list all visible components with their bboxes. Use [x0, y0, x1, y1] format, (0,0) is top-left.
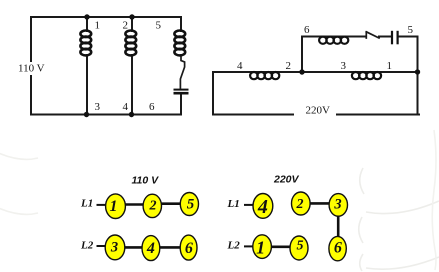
wire: bottom bus [31, 114, 181, 116]
svg-text:220V: 220V [306, 105, 331, 117]
svg-text:1: 1 [95, 20, 101, 32]
wire: capacitor to corner [398, 36, 418, 38]
wire link 3-4 [123, 246, 144, 249]
svg-text:4: 4 [257, 196, 268, 218]
svg-text:L2: L2 [80, 239, 94, 251]
svg-text:4: 4 [237, 60, 243, 72]
wire: branch 3 upper [180, 17, 182, 31]
svg-text:5: 5 [297, 239, 304, 254]
svg-text:2: 2 [149, 198, 157, 213]
terminal 2 [292, 192, 311, 215]
svg-text:110 V: 110 V [18, 63, 45, 75]
svg-text:5: 5 [187, 196, 195, 212]
inductor winding 2-4 [125, 31, 136, 56]
wire L2 lead [97, 245, 107, 247]
junction dot top branch 2 [129, 14, 134, 19]
terminal 6 [329, 236, 346, 260]
svg-text:6: 6 [149, 101, 155, 113]
wire: branch 1 vertical [86, 17, 88, 115]
terminal 1 [106, 194, 126, 219]
terminal 3 [105, 235, 125, 260]
svg-text:4: 4 [123, 101, 129, 113]
wire L1 lead [244, 204, 254, 206]
svg-text:3: 3 [95, 101, 101, 113]
svg-text:3: 3 [110, 239, 118, 255]
terminal 4 [253, 194, 273, 219]
terminal 5 [290, 236, 308, 260]
wire L2 lead [244, 245, 255, 247]
wire link 3-6 vertical [337, 215, 340, 239]
svg-text:220V: 220V [273, 174, 300, 186]
svg-text:2: 2 [286, 60, 292, 72]
junction dot top branch 1 [84, 14, 89, 19]
svg-text:2: 2 [296, 197, 304, 212]
wire: right side vertical [417, 37, 419, 115]
wire link 2-5 [159, 202, 182, 205]
wire: left side down [212, 72, 214, 115]
terminal 6 [180, 235, 197, 260]
terminal 5 [180, 193, 198, 216]
svg-text:6: 6 [334, 240, 342, 257]
inductor winding 6-5 (start winding) [319, 37, 348, 44]
terminal 3 [329, 194, 347, 217]
wire link 1-2 [123, 203, 145, 206]
svg-text:L1: L1 [227, 198, 240, 210]
page scan artifact arcs (faint) [0, 130, 439, 271]
wire: top bus [31, 16, 181, 18]
wire: left side lower segment [30, 76, 32, 115]
svg-text:1: 1 [256, 238, 265, 258]
wire: bottom right segment [337, 114, 419, 116]
svg-text:2: 2 [123, 20, 129, 32]
svg-text:1: 1 [387, 60, 393, 72]
svg-text:5: 5 [156, 20, 162, 32]
terminal 2 [143, 194, 161, 217]
svg-text:3: 3 [341, 60, 347, 72]
svg-text:L1: L1 [80, 198, 93, 210]
wire: branch 2 vertical [131, 17, 133, 115]
switch S1 (centrifugal) top branch [366, 32, 379, 38]
inductor winding 5-6 (start winding) [174, 31, 185, 56]
svg-text:6: 6 [185, 240, 193, 257]
inductor winding 1-3 [80, 31, 91, 56]
wire: main horizontal line [213, 71, 418, 73]
wire: branch 3 below capacitor [180, 95, 182, 115]
inductor winding 4-2 (run winding) [250, 72, 279, 79]
junction dot bottom branch 1 [84, 112, 89, 117]
junction dot bottom branch 2 [129, 112, 134, 117]
wire L1 lead [97, 204, 107, 206]
svg-text:L2: L2 [227, 239, 241, 251]
wire link 2-3 [308, 202, 331, 205]
svg-text:110 V: 110 V [132, 175, 160, 187]
terminal 4 [142, 236, 160, 261]
svg-text:3: 3 [333, 197, 341, 213]
terminal 1 [253, 235, 272, 259]
svg-text:1: 1 [110, 198, 118, 215]
wire: top branch left of switch [302, 36, 366, 38]
svg-text:5: 5 [408, 24, 414, 36]
svg-text:4: 4 [146, 240, 155, 257]
wire: switch to capacitor [379, 36, 392, 38]
wire: bottom left segment [213, 114, 293, 116]
inductor winding 3-1 (run winding) [352, 72, 381, 79]
wire: riser from node 2 to start branch [301, 37, 303, 73]
capacitor C1 in branch 3 [174, 90, 189, 94]
wire link 4-6 [158, 246, 182, 249]
wire link 1-5 [270, 246, 292, 249]
svg-text:6: 6 [304, 24, 310, 36]
junction dot node 1/5 [415, 69, 420, 74]
capacitor C1 top branch [392, 31, 398, 45]
wire: left side upper segment [30, 17, 32, 61]
junction dot node 2 [299, 69, 304, 74]
switch S1 (centrifugal) in branch 3 [180, 55, 184, 88]
